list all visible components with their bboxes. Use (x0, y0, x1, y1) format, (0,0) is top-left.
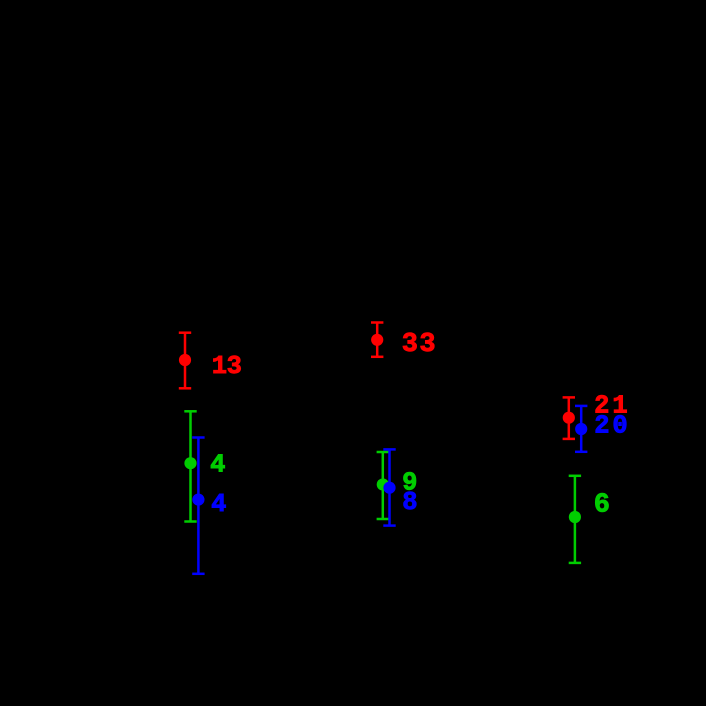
svg-text:3: 3 (402, 330, 418, 360)
svg-text:4: 4 (210, 450, 225, 479)
svg-text:1: 1 (212, 352, 227, 381)
svg-text:4: 4 (211, 490, 226, 519)
svg-text:0: 0 (612, 411, 627, 440)
svg-text:2: 2 (594, 411, 609, 440)
svg-text:8: 8 (402, 488, 417, 517)
svg-text:3: 3 (419, 330, 435, 360)
svg-text:3: 3 (227, 352, 242, 381)
svg-text:6: 6 (594, 490, 610, 520)
